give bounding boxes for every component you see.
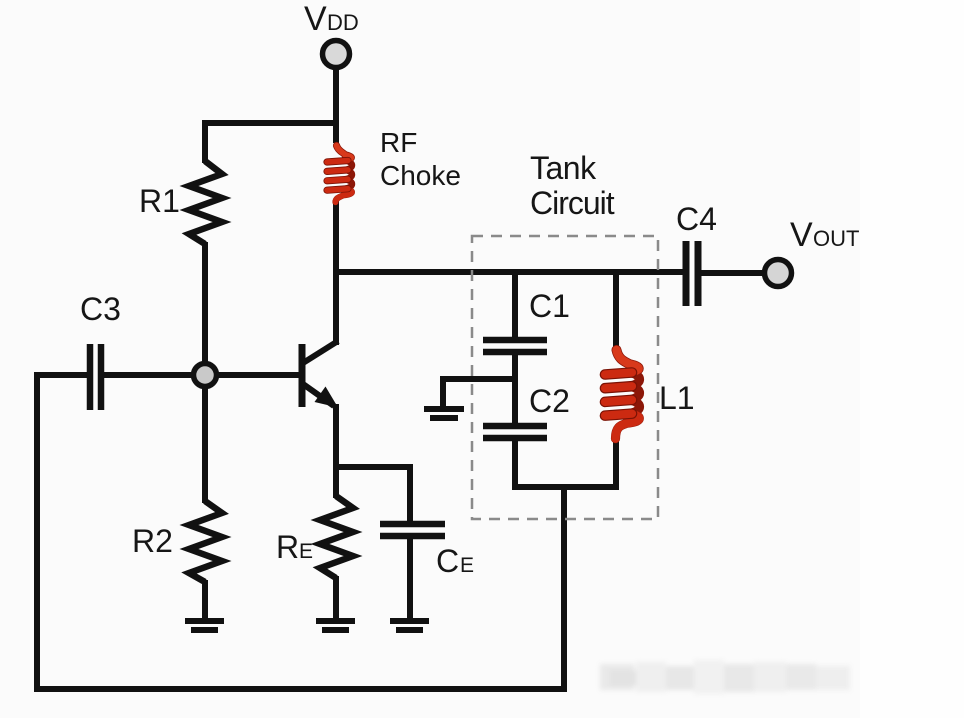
svg-text:E: E — [460, 554, 474, 577]
wire: RE to ground — [333, 576, 339, 621]
wire: CE top vertical — [407, 464, 413, 522]
svg-text:E: E — [299, 540, 313, 563]
wire: VDD vertical down to collector — [333, 68, 339, 143]
resistor R2 — [189, 501, 222, 582]
wire: C1-C2 mid vertical — [512, 352, 518, 426]
wire: ground stub vertical — [440, 376, 446, 408]
svg-text:C1: C1 — [529, 288, 570, 324]
tank circuit dashed box — [472, 236, 658, 519]
svg-text:Tank: Tank — [530, 150, 597, 186]
wire: C1 branch vertical — [512, 272, 518, 340]
resistor RE — [320, 496, 353, 578]
transistor Q1 — [302, 341, 338, 469]
ground (tank) — [424, 409, 464, 418]
svg-text:C: C — [436, 543, 459, 579]
wire: tank bottom horizontal — [512, 484, 619, 490]
svg-text:Choke: Choke — [380, 160, 461, 191]
svg-text:R2: R2 — [132, 523, 173, 559]
wire: R1 vertical top — [202, 120, 208, 163]
wire: R1 bottom vertical to node — [202, 242, 208, 375]
wire: mid to ground horizontal — [443, 376, 515, 382]
wire: C2 bottom vertical — [512, 438, 518, 490]
wire: L1 bottom vertical — [613, 441, 619, 490]
watermark — [600, 656, 856, 696]
wire: CE to ground — [407, 538, 413, 621]
resistor R1 — [189, 161, 222, 244]
capacitor C2 — [483, 426, 547, 438]
capacitor C4 — [686, 241, 764, 306]
svg-text:V: V — [304, 0, 327, 38]
svg-text:V: V — [790, 216, 813, 254]
inductor RF choke — [327, 146, 352, 203]
svg-text:OUT: OUT — [813, 226, 859, 251]
wire: R2 to ground — [202, 580, 208, 621]
node A junction — [194, 364, 217, 387]
wire: base horizontal — [205, 372, 301, 378]
svg-text:C2: C2 — [529, 383, 570, 419]
inductor L1 — [605, 350, 640, 439]
wire: feedback left vertical — [34, 372, 40, 692]
capacitor CE — [380, 524, 445, 536]
svg-text:R: R — [276, 529, 299, 565]
terminal VDD — [323, 41, 350, 68]
svg-text:C3: C3 — [80, 291, 121, 327]
terminal VOUT — [765, 260, 792, 287]
wire: emitter to CE horizontal — [333, 464, 413, 470]
wire: collector vertical — [333, 272, 339, 345]
capacitor C1 — [483, 340, 547, 352]
svg-text:RF: RF — [380, 127, 417, 158]
wire: feedback bottom horizontal — [34, 686, 567, 692]
wire: L1 top vertical — [613, 272, 619, 347]
svg-text:L1: L1 — [659, 380, 695, 416]
wire: R2 vertical top — [202, 375, 208, 503]
svg-text:Circuit: Circuit — [530, 185, 615, 221]
capacitor C3 — [37, 344, 205, 410]
ground (RE) — [316, 621, 355, 630]
wire: tank bottom vertical — [561, 487, 567, 689]
svg-text:DD: DD — [327, 10, 359, 35]
ground (CE) — [390, 621, 429, 630]
svg-text:C4: C4 — [676, 201, 717, 237]
ground (R2) — [185, 621, 224, 630]
svg-text:R1: R1 — [139, 183, 180, 219]
wire: emitter to RE — [333, 467, 339, 498]
wire: main output horizontal — [336, 269, 689, 275]
wire: R1 top horizontal — [202, 120, 336, 126]
